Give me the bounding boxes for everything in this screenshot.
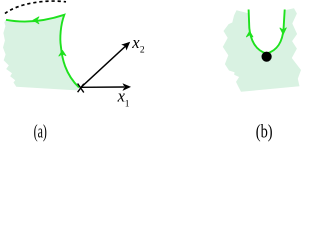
svg-text:x: x bbox=[131, 33, 140, 52]
green boundary curve (a) bbox=[6, 15, 79, 88]
x1 axis bbox=[81, 86, 124, 88]
white interior of U-curve (b) bbox=[249, 9, 285, 54]
svg-text:(b): (b) bbox=[256, 121, 273, 142]
x marker at origin bbox=[78, 84, 84, 93]
x2 axis bbox=[81, 46, 126, 87]
x2 arrowhead bbox=[121, 42, 130, 51]
svg-text:1: 1 bbox=[125, 100, 130, 110]
x1 arrowhead bbox=[123, 83, 132, 91]
shaded region (a) bbox=[3, 15, 79, 91]
green arrow on top edge of (a), pointing left bbox=[33, 17, 39, 24]
svg-text:2: 2 bbox=[140, 45, 145, 55]
green arrow on left branch (b), pointing up bbox=[246, 31, 253, 37]
dashed arc (a) bbox=[5, 1, 66, 13]
svg-text:(a): (a) bbox=[34, 121, 47, 142]
shaded region (b) bbox=[223, 8, 301, 92]
green U curve (b) bbox=[249, 10, 285, 54]
green arrow on right edge of (a), pointing up bbox=[59, 50, 66, 56]
black dot (b) bbox=[262, 52, 272, 62]
green arrow on right branch (b), pointing down bbox=[280, 28, 286, 35]
